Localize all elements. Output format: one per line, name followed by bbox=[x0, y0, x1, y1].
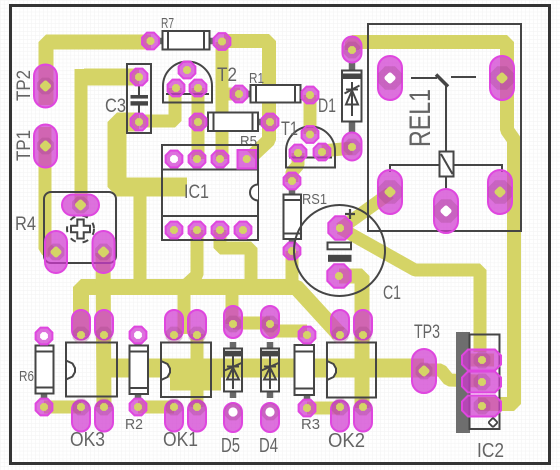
trimmer R4 bbox=[15, 192, 116, 273]
svg-text:C3: C3 bbox=[105, 96, 126, 117]
svg-text:D4: D4 bbox=[259, 435, 278, 457]
op-amp IC1 bbox=[162, 145, 258, 240]
resistor R6 bbox=[19, 328, 54, 416]
wire R4 bottom right down through OK3 right pads bbox=[103, 253, 104, 407]
wire C1 minus to OK2 top right and through OK2 to bottom right bbox=[339, 276, 362, 408]
svg-text:C1: C1 bbox=[383, 283, 401, 304]
wire R1 right to T1 top bbox=[304, 95, 317, 134]
svg-text:D5: D5 bbox=[221, 435, 240, 457]
voltage regulator IC2 bbox=[456, 332, 504, 462]
wire C3 top corner down to R4 bbox=[75, 69, 88, 205]
test point TP1 bbox=[14, 125, 57, 168]
wire stub under OK1 bbox=[170, 378, 221, 391]
wire D4 top to R3 top bbox=[270, 324, 307, 331]
test point TP2 bbox=[14, 65, 57, 108]
wire TP3 to IC2 pin2 bbox=[424, 370, 478, 381]
resistor R1 bbox=[231, 71, 319, 103]
wire R2 bottom to OK1 bottom left bbox=[138, 401, 174, 414]
wire signal bus OK3 to TP3 bbox=[100, 359, 424, 378]
wire T1 left to RS1 top bbox=[292, 153, 298, 182]
resistor R5 bbox=[190, 113, 279, 151]
svg-text:T2: T2 bbox=[217, 65, 237, 86]
svg-text:TP3: TP3 bbox=[414, 322, 440, 343]
svg-text:OK3: OK3 bbox=[70, 429, 105, 451]
svg-text:R2: R2 bbox=[125, 417, 143, 433]
diode D1 bbox=[318, 37, 362, 161]
wire D1 top along top right down right edge to IC2 pin3 bbox=[352, 42, 514, 404]
svg-text:R5: R5 bbox=[240, 134, 257, 150]
wire gnd bus horizontal bbox=[81, 287, 339, 336]
svg-text:R7: R7 bbox=[161, 16, 174, 32]
optocoupler OK3 bbox=[66, 310, 117, 451]
resistor R2 bbox=[125, 327, 148, 433]
optocoupler OK2 bbox=[327, 310, 376, 452]
resistor R3 bbox=[295, 327, 321, 433]
svg-text:T1: T1 bbox=[281, 119, 298, 140]
wire C1 plus diagonal to IC2 pin1 bbox=[340, 228, 480, 352]
wire R6 bottom to OK3 bottom left bbox=[44, 401, 81, 414]
relay REL1 bbox=[368, 24, 521, 233]
wire TP2 to R7 left bbox=[46, 42, 151, 105]
wire gnd bus down to D5 top bbox=[226, 287, 239, 324]
wire D5 top to D4 top bbox=[233, 317, 270, 330]
svg-text:REL1: REL1 bbox=[404, 89, 437, 147]
optocoupler OK1 bbox=[161, 310, 211, 451]
svg-text:IC2: IC2 bbox=[477, 440, 504, 462]
wire C3 bottom to T2 left bbox=[140, 88, 175, 121]
svg-text:OK1: OK1 bbox=[163, 429, 198, 451]
svg-text:R1: R1 bbox=[249, 71, 264, 87]
svg-text:TP2: TP2 bbox=[14, 70, 35, 101]
wire IC2 pin1 stub bbox=[467, 354, 494, 367]
wire T1 right to D1 bottom bbox=[322, 148, 352, 151]
svg-text:R4: R4 bbox=[15, 214, 36, 235]
svg-text:R3: R3 bbox=[301, 417, 320, 433]
svg-text:RS1: RS1 bbox=[302, 192, 327, 208]
resistor RS1 bbox=[284, 173, 328, 260]
diode D4 bbox=[259, 306, 279, 457]
wire branch down to gnd bus bbox=[134, 186, 147, 287]
wire relay coil left pad diagonal to C1 plus bbox=[340, 193, 390, 229]
capacitor C1 bbox=[294, 205, 401, 304]
capacitor C3 bbox=[105, 64, 151, 133]
wire C3 top to R4 top bbox=[84, 69, 139, 86]
wire R1 left to column junction bbox=[222, 88, 240, 101]
svg-text:D1: D1 bbox=[318, 96, 336, 117]
svg-text:R6: R6 bbox=[19, 369, 34, 385]
svg-text:OK2: OK2 bbox=[328, 430, 365, 452]
wire R3 bottom to OK2 bottom left bbox=[307, 402, 340, 415]
wire R7 right to R5 right column down to IC1 pin4 bbox=[224, 41, 269, 156]
wire TP1 to R4 bottom left bbox=[45, 127, 51, 252]
wire IC1 pin7 down to OK1 top left bbox=[184, 230, 197, 334]
test point TP3 bbox=[412, 322, 440, 393]
svg-text:TP1: TP1 bbox=[14, 130, 35, 161]
wire IC1 pin6 jog to gnd bus bbox=[220, 230, 251, 287]
transistor T1 bbox=[281, 119, 335, 168]
wire OK1 interior top right to bottom right bbox=[191, 334, 204, 407]
wire R7 right down to IC1 pin3 bbox=[216, 42, 229, 159]
svg-text:IC1: IC1 bbox=[184, 182, 209, 203]
diode D5 bbox=[221, 306, 242, 457]
transistor T2 bbox=[163, 62, 237, 103]
resistor R7 bbox=[142, 16, 230, 50]
wire RS1 bottom to gnd bus bbox=[286, 251, 299, 287]
wire C3 bottom down under IC1 bbox=[117, 122, 187, 187]
wire T2 right to R5 left to IC1 pin2 bbox=[192, 88, 205, 159]
